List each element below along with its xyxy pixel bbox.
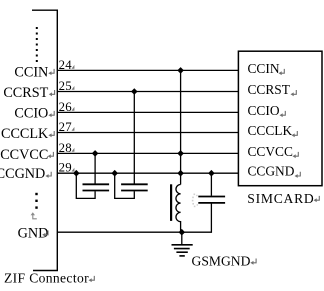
svg-text:27: 27	[59, 120, 73, 134]
return mark after CCGND	[48, 172, 51, 176]
svg-text:CCIO: CCIO	[248, 103, 280, 118]
svg-text:SIMCARD: SIMCARD	[247, 191, 314, 206]
svg-text:CCVCC: CCVCC	[248, 144, 293, 159]
wire pin29 CCGND	[57, 172, 238, 174]
return mark after CCIN	[51, 69, 54, 73]
return marks (gray)	[42, 69, 319, 282]
capacitor C3	[198, 173, 225, 203]
svg-text:28: 28	[59, 141, 72, 155]
junction on wire 29 at C1 leg	[73, 170, 80, 177]
dotted continuation line (upper)	[36, 27, 38, 62]
svg-text:CCIO: CCIO	[14, 106, 48, 122]
wire vertical from CCIN down to inductor	[180, 70, 182, 184]
svg-text:CCIN: CCIN	[248, 61, 280, 76]
ground GSMGND symbol	[172, 232, 193, 256]
return mark after SIMCARD	[317, 196, 320, 200]
capacitor C1	[76, 153, 109, 198]
faint anchor speckles near L1	[192, 194, 198, 208]
junction on GND wire at ground lead	[179, 229, 186, 236]
small gray marks after pin numbers	[72, 65, 75, 172]
return mark after box CCVCC	[296, 152, 299, 156]
return mark after CCIO	[51, 111, 54, 115]
svg-text:26: 26	[59, 100, 73, 114]
wire pin26 CCIO	[57, 111, 238, 113]
svg-text:25: 25	[59, 79, 72, 93]
capacitor C2	[115, 173, 148, 198]
wire vertical from CCRST to C2	[133, 92, 135, 185]
svg-text:CCGND: CCGND	[248, 164, 295, 179]
svg-text:GSMGND: GSMGND	[192, 253, 251, 268]
return mark after CCCLK	[51, 131, 54, 135]
return mark after box CCCLK	[295, 131, 298, 135]
svg-text:GND: GND	[18, 225, 49, 241]
junction on wire 29 at C2 leg	[111, 170, 118, 177]
return mark after ZIF Connector	[92, 276, 95, 280]
junction on wire 28 at C1 lead	[92, 150, 99, 157]
return mark after box CCIO	[283, 111, 286, 115]
svg-text:CCVCC: CCVCC	[0, 147, 48, 163]
return mark after CCVCC	[51, 152, 54, 156]
wire pin24 CCIN	[57, 69, 238, 71]
svg-text:24: 24	[59, 58, 73, 72]
svg-text:CCRST: CCRST	[248, 82, 290, 97]
svg-text:CCCLK: CCCLK	[248, 123, 293, 138]
paragraph mark (up-arrow, gray)	[31, 212, 37, 219]
dotted continuation line (lower)	[35, 193, 37, 209]
junction on wire 28 at vertical B	[177, 150, 184, 157]
junction on wire 29 at inductor	[177, 170, 184, 177]
return mark after CCRST	[52, 90, 55, 94]
junction on wire 25 at vertical A	[131, 88, 138, 95]
svg-text:ZIF Connector: ZIF Connector	[4, 271, 89, 286]
SIMCARD box U1	[238, 51, 322, 186]
junction on wire 29 at C3 lead	[208, 170, 215, 177]
svg-text:CCRST: CCRST	[3, 85, 48, 101]
wire pin28 CCVCC	[57, 152, 238, 154]
return mark after box CCGND	[298, 172, 301, 176]
inductor L1 core bar	[170, 184, 172, 221]
return mark after box CCRST	[294, 90, 297, 94]
wire pin25 CCRST	[57, 91, 238, 93]
return mark after GSMGND	[253, 259, 256, 263]
inductor L1 coil	[176, 185, 181, 233]
svg-text:CCIN: CCIN	[14, 64, 48, 80]
return mark after GND	[45, 231, 48, 235]
svg-text:CCCLK: CCCLK	[1, 126, 49, 142]
wire pin27 CCCLK	[57, 132, 238, 134]
svg-text:29: 29	[59, 161, 72, 175]
ZIF connector J1 body (open bracket)	[32, 10, 57, 270]
svg-text:CCGND: CCGND	[0, 166, 45, 182]
wire GND	[57, 203, 211, 232]
return mark after box CCIN	[282, 69, 285, 73]
junction on wire 24 at vertical B	[177, 67, 184, 74]
